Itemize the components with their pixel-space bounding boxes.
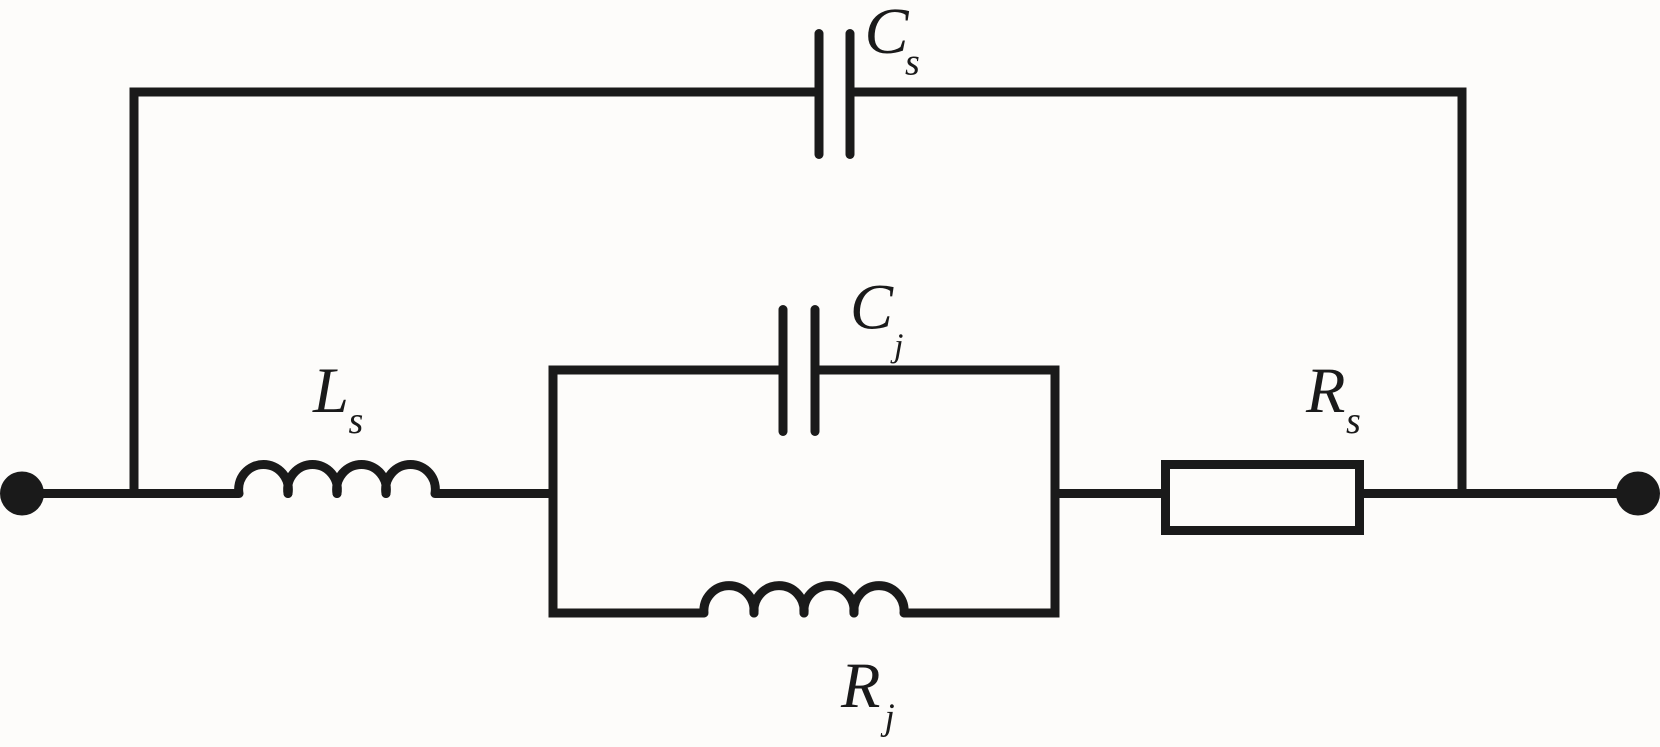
label Rs bbox=[1305, 355, 1361, 442]
capacitor Cj bbox=[783, 310, 815, 432]
node left terminal bbox=[0, 472, 44, 516]
wire parallel-box left edge bbox=[549, 366, 558, 618]
label Cj bbox=[850, 272, 903, 365]
wire left dot to inductor Ls bbox=[22, 489, 239, 498]
wire box to resistor Rs bbox=[1055, 489, 1161, 498]
label Ls bbox=[312, 355, 363, 442]
wire parallel-box bottom edge right of Rj coil bbox=[904, 609, 1060, 618]
label Cs bbox=[865, 0, 920, 84]
svg-text:C: C bbox=[850, 272, 894, 343]
label Rj bbox=[840, 650, 895, 738]
wire parallel-box right edge bbox=[1051, 366, 1060, 618]
wire top left to Cs bbox=[130, 88, 820, 97]
wire right vertical branch down from Cs bbox=[1458, 92, 1467, 498]
node right terminal bbox=[1616, 472, 1660, 516]
svg-text:R: R bbox=[1305, 355, 1345, 426]
wire resistor Rs to right dot bbox=[1364, 489, 1638, 498]
inductor Ls bbox=[239, 464, 436, 493]
capacitor Cs bbox=[819, 34, 850, 155]
wire parallel-box top edge left of Cj bbox=[549, 366, 784, 375]
wire Ls to junction box bbox=[435, 489, 553, 498]
svg-text:s: s bbox=[905, 42, 920, 84]
svg-text:R: R bbox=[840, 650, 880, 721]
inductor-style coil Rj bbox=[704, 586, 904, 613]
wire parallel-box top edge right of Cj bbox=[815, 366, 1060, 375]
wire top Cs to right vertical bbox=[850, 88, 1467, 97]
svg-text:s: s bbox=[349, 400, 364, 442]
resistor Rs bbox=[1166, 465, 1360, 531]
svg-text:s: s bbox=[1346, 400, 1361, 442]
svg-text:C: C bbox=[865, 0, 910, 68]
svg-text:L: L bbox=[312, 355, 349, 426]
wire left vertical branch up to Cs bbox=[130, 92, 139, 498]
wire parallel-box bottom edge left of Rj coil bbox=[549, 609, 705, 618]
